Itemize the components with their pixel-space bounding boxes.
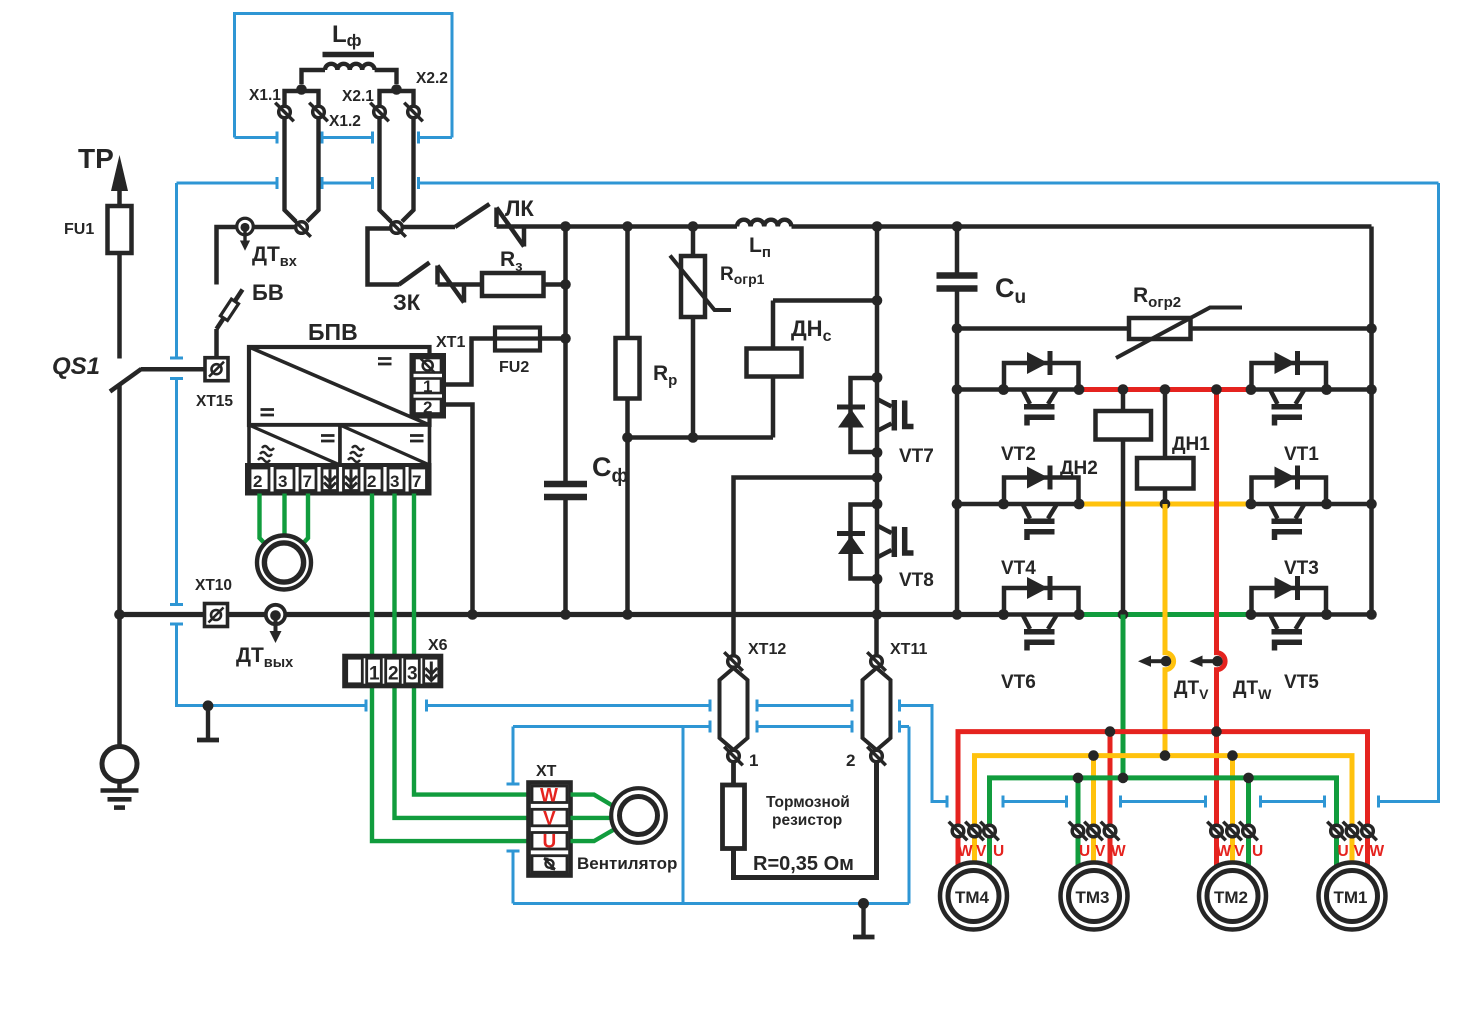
breaker BV wire from XT15: [214, 329, 219, 358]
terminals of motor TM2: [1207, 822, 1258, 841]
junction: W bus at feeder: [1211, 726, 1222, 737]
terminals of motor TM1: [1327, 822, 1377, 841]
enclosure: chassis ground of main cabinet: [197, 706, 219, 741]
junction: DN2 at W row: [1118, 384, 1129, 395]
wire: X2 cable pair legs: [380, 118, 414, 222]
svg-text:2: 2: [253, 472, 262, 491]
traction motor TM1: [1319, 863, 1386, 930]
wire: XT1 pin2 to bus: [444, 405, 473, 615]
junction: Lf left lead: [296, 84, 307, 95]
wire: X1 cable pair top bar: [285, 91, 319, 106]
svg-text:Rр: Rр: [653, 362, 677, 389]
wire: chopper column from main line: [875, 227, 880, 378]
wire: phase W drop to TM2: [1214, 732, 1219, 866]
wire: phase W drop to TM3: [1108, 732, 1113, 866]
rotation symbol in XT cell 4: [544, 858, 555, 869]
svg-text:ДТW: ДТW: [1233, 678, 1272, 702]
svg-text:2: 2: [423, 398, 432, 417]
current sensor DTv: [1138, 656, 1171, 667]
terminals of motor TM4: [949, 822, 999, 841]
svg-text:W: W: [1217, 843, 1232, 860]
svg-text:W: W: [540, 786, 558, 807]
junction: dot on cabinet bottom edge: [203, 700, 214, 711]
terminal X1.2: [309, 103, 328, 122]
svg-text:Вентилятор: Вентилятор: [577, 854, 677, 873]
junction: DN1 at W row: [1160, 384, 1171, 395]
wire: phase U row black segment right: [1327, 612, 1372, 617]
svg-text:2: 2: [846, 751, 855, 770]
ground pin symbol in X6: [425, 662, 437, 682]
converter BPV right inverter section: [340, 425, 430, 465]
terminal X2.2: [404, 103, 423, 122]
wire: midpoint to XT12: [734, 478, 878, 656]
svg-text:7: 7: [412, 472, 421, 491]
varistor Rogr2 row: [957, 326, 1372, 331]
svg-text:VT3: VT3: [1284, 558, 1319, 579]
svg-text:БПВ: БПВ: [308, 319, 358, 345]
svg-text:V: V: [976, 843, 987, 860]
junction: top rail at Cu: [952, 221, 963, 232]
junction: LK line at Cf column: [560, 221, 571, 232]
svg-text:U: U: [1252, 843, 1263, 860]
enclosure: main converter cabinet outline: [170, 177, 1439, 808]
terminal block XT1: [412, 355, 445, 417]
junction: V bus at TM3: [1088, 750, 1099, 761]
current sensor DTout: [266, 605, 285, 643]
contactor ZK fixed contact: [438, 266, 465, 303]
auxiliary fan motor of BPV: [257, 536, 311, 590]
svg-text:V: V: [1095, 843, 1106, 860]
enclosure: fan and brake resistor boxes: [507, 721, 910, 904]
svg-text:1: 1: [423, 377, 432, 396]
ground pin symbol in BPV terminal 4: [324, 470, 336, 490]
ground pin symbol in BPV terminal 5: [345, 470, 357, 490]
connector X6: [345, 656, 442, 686]
junction: Rp top: [622, 221, 633, 232]
IGBT module VT5: [1246, 576, 1332, 651]
junction: DN1 at V row: [1160, 499, 1171, 510]
svg-text:ДН2: ДН2: [1060, 458, 1098, 479]
IGBT module VT7: [837, 372, 914, 458]
connector XT12 bushing: [720, 652, 748, 765]
svg-text:XT1: XT1: [436, 334, 465, 351]
svg-text:3: 3: [278, 472, 287, 491]
junction: V row at right bus: [1366, 499, 1377, 510]
wire: down to earthing wheel: [117, 615, 122, 748]
svg-text:Rогр2: Rогр2: [1133, 284, 1181, 311]
wire: Rz to node: [544, 282, 566, 287]
wire: phase U drop to TM2: [1246, 778, 1251, 866]
voltage divider DN2: [1096, 390, 1152, 615]
svg-text:VT8: VT8: [899, 570, 934, 591]
wire: BPV terminals to auxiliary fan: [260, 494, 309, 552]
svg-text:XT12: XT12: [748, 641, 786, 658]
wire: DC minus left vertical: [955, 227, 960, 615]
wire: BPV phase 3 to fan V: [395, 494, 529, 818]
fast breaker BV: [217, 290, 243, 330]
svg-text:3: 3: [390, 472, 399, 491]
junction: U bus at TM2: [1243, 773, 1254, 784]
junction: V row at left bus: [952, 499, 963, 510]
junction: U row at right bus: [1366, 609, 1377, 620]
svg-text:X2.2: X2.2: [416, 70, 448, 87]
wire: DC plus right vertical: [1369, 227, 1374, 615]
junction: Lf right lead: [391, 84, 402, 95]
varistor Rogr2: [1116, 308, 1242, 359]
enclosure: filter reactor box (Lф): [235, 14, 453, 144]
wire: phase U feeder: [1121, 615, 1126, 778]
wire: phase V feeder with DTv loop: [1165, 504, 1174, 756]
svg-text:W: W: [958, 843, 973, 860]
terminal row of BPV: [247, 465, 430, 494]
smoothing reactor Lp: [737, 220, 791, 227]
junction: Rp at sense line: [622, 432, 633, 443]
junction: W bus at TM3: [1105, 726, 1116, 737]
svg-text:W: W: [1370, 843, 1385, 860]
svg-text:X1.1: X1.1: [249, 87, 281, 104]
IGBT module VT4: [998, 466, 1084, 541]
labels TM3 phases: [1079, 843, 1126, 860]
junction: Rogr2 row left: [952, 323, 963, 334]
junction: chopper midpoint: [872, 472, 883, 483]
svg-text:ЗК: ЗК: [393, 290, 421, 315]
junction: VT8 at bus: [872, 609, 883, 620]
enclosure: chassis ground of resistor box: [853, 904, 875, 938]
wire: X2 to LK: [403, 225, 456, 230]
svg-text:1: 1: [369, 664, 380, 685]
wire: phase W feeder with DTw loop: [1217, 390, 1226, 732]
svg-text:U: U: [1338, 843, 1349, 860]
wire: phase W row black segments: [957, 387, 1372, 392]
wire: chopper midpoint: [875, 453, 880, 505]
wire: phase W red segment: [1079, 387, 1251, 392]
labels TM1 phases: [1338, 843, 1385, 860]
svg-text:ТМ1: ТМ1: [1334, 888, 1368, 907]
terminal XT10: [205, 604, 228, 627]
wire: main return bus: [120, 612, 1004, 617]
svg-text:ЛК: ЛК: [505, 196, 534, 221]
svg-text:XT15: XT15: [196, 393, 233, 410]
svg-text:ТМ4: ТМ4: [955, 888, 990, 907]
svg-text:БВ: БВ: [252, 280, 284, 305]
svg-text:V: V: [543, 809, 556, 830]
wire: BV fixed contact to DTin line: [217, 227, 297, 285]
terminal XT15: [205, 358, 228, 381]
junction: Rogr2 row right: [1366, 323, 1377, 334]
junction: chopper top: [872, 221, 883, 232]
ground (rail earth): [101, 782, 139, 808]
labels TM4 phases: [958, 843, 1004, 860]
svg-text:W: W: [1111, 843, 1126, 860]
resistor Rp: [616, 227, 640, 615]
svg-text:3: 3: [407, 664, 418, 685]
junction: Rogr1 top: [688, 221, 699, 232]
wire: voltage sense line: [628, 435, 774, 440]
junction: DN2 at U row: [1118, 609, 1129, 620]
junction: W feeder tap: [1211, 384, 1222, 395]
fan motor: [611, 788, 666, 843]
wire: X2 to ZK branch: [368, 229, 400, 285]
junction: U row at left bus: [952, 609, 963, 620]
svg-text:1: 1: [749, 751, 758, 770]
wire: phase U distribution bus: [990, 778, 1337, 866]
svg-text:XT11: XT11: [890, 641, 927, 658]
junction: W row at right bus: [1366, 384, 1377, 395]
contactor LK fixed contact: [497, 208, 525, 247]
svg-text:2: 2: [367, 472, 376, 491]
wire: phase V drop to TM2: [1230, 756, 1235, 866]
junction: Rp at bus: [622, 609, 633, 620]
current sensor DTin: [237, 218, 253, 250]
disconnector QS1: [110, 369, 205, 615]
junction: Cf at bus: [560, 609, 571, 620]
svg-text:V: V: [1234, 843, 1245, 860]
wire: phase W distribution bus: [958, 732, 1368, 866]
wire: main positive line LK to inverter: [497, 224, 1372, 229]
wire: phase V drop to TM3: [1091, 756, 1096, 866]
traction motor TM3: [1061, 863, 1128, 930]
converter BPV left inverter section: [249, 425, 340, 465]
wire: node column Cf riser: [563, 227, 568, 482]
svg-text:Rз: Rз: [500, 248, 523, 275]
voltage divider DN1: [1137, 390, 1194, 505]
svg-text:VT1: VT1: [1284, 444, 1319, 465]
wire: phase U drop to TM3: [1076, 778, 1081, 866]
wire: phase V row black segments: [957, 502, 1372, 507]
svg-text:ДТвых: ДТвых: [236, 644, 293, 671]
svg-text:VT6: VT6: [1001, 672, 1036, 693]
wire: XT1 pin1 to FU2: [444, 339, 495, 385]
svg-text:2: 2: [388, 664, 399, 685]
junction: Rogr1 at sense line: [688, 432, 699, 443]
svg-text:VT7: VT7: [899, 446, 934, 467]
junction: U bus at TM3: [1073, 773, 1084, 784]
filter reactor Lf: [302, 55, 397, 85]
svg-text:XT: XT: [536, 763, 557, 780]
capacitor Cu: [937, 276, 978, 289]
wire: supply feeder with arrow to TP: [111, 155, 128, 359]
svg-text:Lп: Lп: [749, 234, 771, 261]
svg-text:U: U: [1079, 843, 1090, 860]
junction: FU2 at Cf column: [560, 333, 571, 344]
svg-text:ТМ3: ТМ3: [1076, 888, 1110, 907]
svg-text:7: 7: [303, 472, 312, 491]
capacitor Cf: [544, 484, 587, 615]
svg-text:QS1: QS1: [52, 353, 100, 380]
earthing wheel contact: [102, 747, 137, 782]
svg-text:резистор: резистор: [772, 812, 842, 829]
junction: XT1 pin2 at bus: [467, 609, 478, 620]
junction: bus left end: [114, 609, 125, 620]
traction motor TM2: [1199, 863, 1266, 930]
terminal X1.1: [275, 103, 294, 122]
varistor Rogr1: [670, 227, 731, 438]
svg-text:ДНс: ДНс: [791, 316, 832, 345]
wire: BPV phase 7 to fan W: [414, 494, 529, 795]
voltage divider DNc: [747, 301, 878, 438]
svg-text:Rогр1: Rогр1: [720, 264, 765, 287]
IGBT module VT6: [998, 576, 1084, 651]
junction: U bus at feeder: [1118, 773, 1129, 784]
traction motor TM4: [940, 863, 1007, 930]
current sensor DTw: [1190, 656, 1223, 667]
terminal X1 cable bottom: [292, 218, 311, 237]
svg-text:U: U: [543, 832, 557, 853]
svg-text:ТР: ТР: [78, 143, 114, 174]
wire: VT8 to bus: [875, 579, 880, 615]
wire: XT to fan leads: [571, 795, 615, 842]
svg-text:X2.1: X2.1: [342, 88, 374, 105]
svg-text:FU1: FU1: [64, 221, 94, 238]
connector XT11 bushing: [863, 652, 891, 765]
wire: phase V distribution bus: [975, 756, 1353, 866]
terminal block XT of fan: [529, 783, 571, 876]
IGBT module VT2: [998, 351, 1084, 426]
labels TM2 phases: [1217, 843, 1264, 860]
svg-text:FU2: FU2: [499, 359, 529, 376]
svg-text:VT5: VT5: [1284, 672, 1319, 693]
brake resistor: [723, 762, 877, 878]
svg-text:Сф: Сф: [592, 452, 628, 487]
wire: bus to XT11: [874, 615, 879, 656]
svg-text:ДН1: ДН1: [1172, 434, 1210, 455]
contactor LK blade: [455, 204, 490, 227]
junction: dot on resistor box bottom edge: [858, 898, 869, 909]
contactor ZK blade: [399, 263, 430, 285]
svg-text:R=0,35 Ом: R=0,35 Ом: [753, 853, 854, 875]
svg-text:XT10: XT10: [195, 577, 232, 594]
terminals of motor TM3: [1069, 822, 1120, 841]
junction: W row at left bus: [952, 384, 963, 395]
fuse FU2: [495, 328, 566, 351]
wire: X1 cable pair legs: [285, 118, 319, 222]
resistor Rz: [482, 273, 544, 296]
fuse FU1: [108, 206, 132, 253]
IGBT module VT3: [1246, 466, 1332, 541]
converter block BPV: [249, 347, 430, 425]
junction: V bus at TM2: [1227, 750, 1238, 761]
IGBT module VT1: [1246, 351, 1332, 426]
svg-text:U: U: [993, 843, 1004, 860]
wire: phase V yellow segment: [1079, 502, 1251, 507]
junction: DNc at chopper column: [872, 295, 883, 306]
svg-text:V: V: [1354, 843, 1365, 860]
junction: Rz at Cf column: [560, 279, 571, 290]
svg-text:X6: X6: [428, 637, 448, 654]
junction: V bus at feeder: [1160, 750, 1171, 761]
svg-text:ДТвх: ДТвх: [252, 243, 297, 270]
svg-text:Тормозной: Тормозной: [766, 794, 850, 811]
wire: X2 cable pair top bar: [380, 91, 414, 106]
svg-text:VT2: VT2: [1001, 444, 1036, 465]
svg-text:Cu: Cu: [995, 273, 1026, 308]
terminal X2 cable bottom: [387, 218, 406, 237]
IGBT module VT8: [837, 499, 914, 585]
svg-text:Lф: Lф: [332, 21, 362, 50]
wire: ZK to Rz: [438, 282, 483, 287]
wire: phase U row green segment: [1079, 612, 1251, 617]
svg-text:ТМ2: ТМ2: [1214, 888, 1248, 907]
svg-text:ДТV: ДТV: [1174, 678, 1209, 702]
wire: BPV phase 2 to fan U: [372, 494, 529, 842]
svg-text:X1.2: X1.2: [329, 113, 361, 130]
terminal X2.1: [370, 103, 389, 122]
svg-text:VT4: VT4: [1001, 558, 1036, 579]
